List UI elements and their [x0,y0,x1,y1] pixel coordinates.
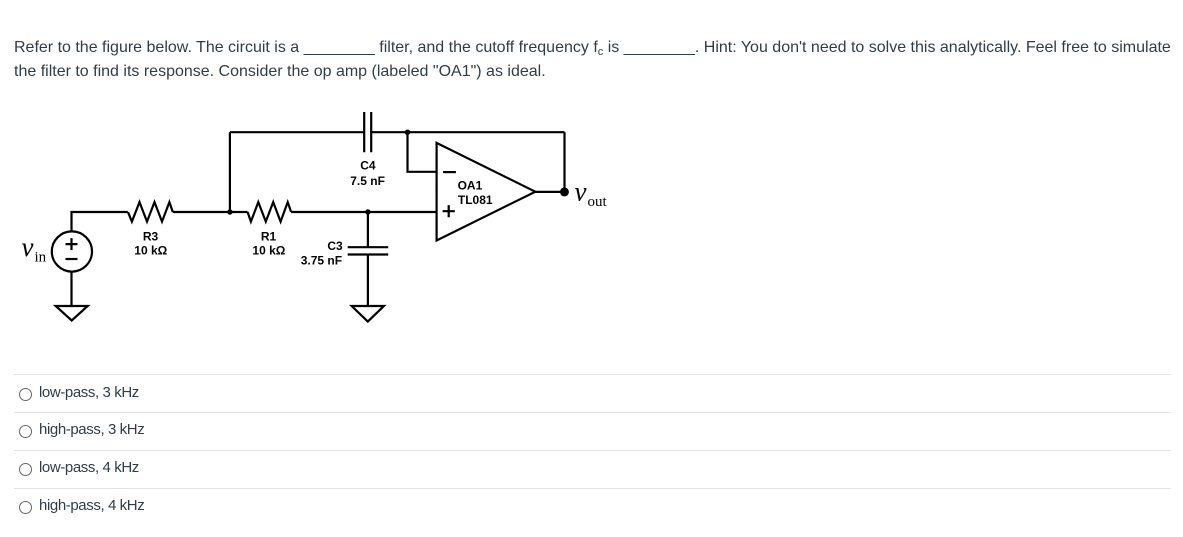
wire C3 to ground [367,255,369,307]
svg-text:3.75 nF: 3.75 nF [301,254,342,268]
svg-text:10 kΩ: 10 kΩ [134,244,167,258]
capacitor C3 [348,247,389,254]
svg-text:v: v [575,177,587,207]
wire between R3 and R1 [173,211,248,213]
wire minus riser into op-amp [408,132,437,172]
wire C3 stub top [367,212,369,247]
voltage source plus sign [66,238,78,250]
wire feedback down to output [563,132,565,192]
resistor R3 [128,202,173,222]
answer options [0,374,1183,526]
wire left riser (node A up to feedback) [229,132,231,212]
wire output [535,191,564,193]
voltage source Vin circle [52,231,92,271]
wire from R1 to op-amp + input [291,211,437,213]
op-amp plus input sign [443,205,455,217]
svg-text:OA1: OA1 [458,179,483,193]
wire main from source corner to R3 [72,212,128,232]
svg-text:TL081: TL081 [458,193,493,207]
op-amp minus input sign [443,171,456,173]
ground (C3) [352,306,384,322]
junction dot on feedback wire [405,130,410,135]
svg-text:C4: C4 [360,159,376,173]
ground (source) [56,306,88,321]
svg-text:out: out [588,194,608,210]
svg-text:R1: R1 [261,229,277,243]
svg-text:R3: R3 [143,229,159,243]
voltage source minus sign [66,258,78,260]
circuit schematic [0,100,660,350]
op-amp OA1 triangle [437,143,536,241]
svg-text:10 kΩ: 10 kΩ [252,244,285,258]
junction node A dot [227,209,232,214]
wire top feedback left of C4 [230,131,364,133]
wire top feedback right of C4 [371,131,564,133]
svg-text:7.5 nF: 7.5 nF [350,174,385,188]
capacitor C4 [364,112,371,152]
resistor R1 [248,202,292,222]
junction node B dot (C3 tap) [365,209,370,214]
node Vout dot [560,187,569,196]
svg-text:C3: C3 [327,239,343,253]
svg-text:in: in [35,250,47,266]
wire source bottom to ground [70,272,72,307]
svg-text:v: v [22,232,34,262]
